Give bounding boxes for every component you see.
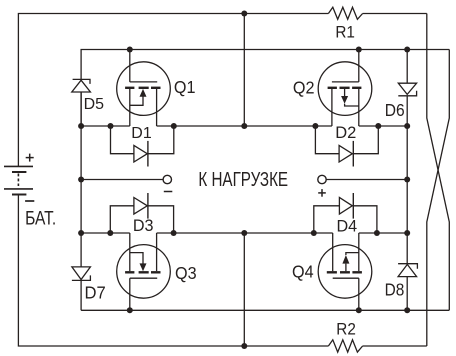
load terminal plus [318, 175, 326, 183]
svg-text:D2: D2 [335, 124, 356, 142]
node top rail / center link [241, 11, 247, 17]
wire top rail right of R1 [363, 13, 427, 15]
wire second rail [80, 92, 82, 126]
node lower rail / right rail [404, 230, 410, 236]
node D2 cathode [375, 123, 381, 129]
transistor Q3 [117, 233, 171, 310]
svg-text:Q2: Q2 [293, 78, 315, 98]
wire center top link [243, 14, 245, 127]
wire right inner rail [406, 50, 408, 84]
diode D2 [315, 126, 378, 167]
node D4 anode [311, 230, 317, 236]
node D4 cathode [374, 230, 380, 236]
svg-text:D8: D8 [385, 281, 405, 300]
svg-text:D6: D6 [385, 100, 405, 120]
svg-text:Q1: Q1 [174, 77, 196, 97]
svg-text:Q3: Q3 [175, 263, 197, 283]
zener D7 [72, 267, 91, 281]
transistor Q4 [318, 233, 372, 310]
wire load right [326, 179, 407, 181]
battery BAT [4, 154, 34, 201]
wire center bottom link [243, 233, 245, 346]
node load right [404, 177, 410, 183]
wire bottom rail left of R2 [18, 195, 328, 346]
node Q2 gate [356, 47, 362, 53]
load terminal minus [163, 175, 171, 183]
wire bottom rail right of R2 [363, 345, 427, 347]
resistor R1 [328, 7, 362, 19]
svg-text:D7: D7 [85, 283, 106, 302]
diode D4 [314, 193, 377, 233]
node load left [78, 177, 84, 183]
node D1 anode [108, 123, 114, 129]
wire lower drain rail [81, 232, 130, 234]
node Q4 gate [356, 307, 362, 313]
svg-text:R2: R2 [336, 320, 356, 339]
svg-text:Q4: Q4 [292, 262, 314, 282]
node Q1 gate [127, 47, 133, 53]
wire Q3/Q4 source rail [81, 309, 449, 311]
svg-text:К НАГРУЗКЕ: К НАГРУЗКЕ [198, 168, 288, 191]
node Q3 gate [127, 307, 133, 313]
node lower rail / left rail [78, 230, 84, 236]
transistor Q1 [117, 50, 171, 127]
wire load left [81, 179, 163, 181]
node lower rail / center link [241, 230, 247, 236]
wire left inner rail [80, 92, 82, 267]
wire crossover line from second rail to bottom rail [427, 50, 450, 347]
wire top rail left of R1 [18, 14, 328, 167]
node D3 anode [107, 230, 113, 236]
node D3 cathode [171, 230, 177, 236]
zener D5 [72, 79, 91, 92]
node upper rail / left rail [78, 123, 84, 129]
transistor Q2 [318, 50, 372, 127]
diode D3 [110, 193, 173, 233]
node second rail / right rail [404, 47, 410, 53]
svg-text:D4: D4 [337, 216, 358, 235]
node upper rail / center link [241, 123, 247, 129]
svg-text:БАТ.: БАТ. [25, 207, 56, 229]
svg-text:D3: D3 [133, 215, 154, 234]
wire upper source rail [81, 125, 130, 127]
node source rail / right rail [404, 307, 410, 313]
node bottom rail / center link [241, 343, 247, 349]
zener D6 [398, 83, 416, 96]
node D2 anode [312, 123, 318, 129]
node D1 cathode [171, 123, 177, 129]
svg-text:D1: D1 [131, 125, 151, 142]
diode D1 [111, 126, 174, 167]
wire crossover line from top rail to lower-right rail [427, 14, 450, 311]
svg-text:D5: D5 [84, 96, 105, 113]
zener D8 [398, 264, 417, 277]
resistor R2 [328, 340, 362, 352]
node upper rail / right rail [404, 123, 410, 129]
svg-text:R1: R1 [335, 23, 355, 42]
